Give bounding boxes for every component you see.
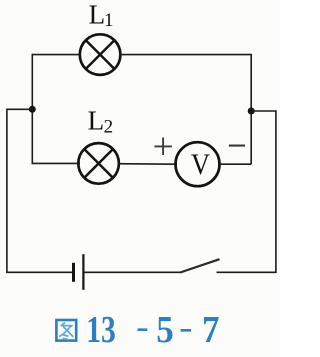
caption: 图 character (drawn) — [56, 320, 76, 341]
svg-text:V: V — [191, 149, 210, 182]
wire: left rail down to battery — [7, 109, 73, 273]
wire: node B to right rail — [251, 110, 276, 112]
svg-text:L: L — [88, 106, 105, 136]
wire: battery to switch — [83, 271, 180, 273]
plus polarity mark — [154, 138, 172, 156]
wire: node A to left rail — [7, 108, 32, 110]
svg-text:7: 7 — [202, 308, 219, 351]
label L1 — [89, 0, 114, 31]
node A junction dot — [29, 106, 36, 113]
wire: node A branch down to lamp L2 — [32, 162, 81, 164]
wire: left vertical joining L1 branch and L2 branch — [31, 54, 33, 164]
wire: lamp L1 to node B (top branch right) — [120, 54, 252, 56]
wire: node A to lamp L1 (top branch left) — [32, 54, 81, 56]
caption dashes — [138, 328, 192, 331]
wire: voltmeter to node B vertical — [218, 163, 251, 165]
node B junction dot — [248, 108, 255, 115]
lamp L1 — [80, 34, 121, 75]
lamp L2 — [78, 143, 119, 184]
svg-text:1: 1 — [104, 10, 114, 31]
wire: right vertical from L1 branch to voltmeter branch — [250, 54, 252, 164]
svg-text:13: 13 — [86, 310, 116, 351]
svg-text:L: L — [89, 0, 106, 30]
switch S (open blade) — [180, 259, 219, 272]
wire: right rail down to switch — [217, 110, 276, 272]
wire: lamp L2 to voltmeter — [118, 163, 177, 166]
voltmeter V — [176, 142, 220, 186]
caption: figure number 13 - 5 - 7 — [86, 308, 219, 351]
svg-text:2: 2 — [104, 116, 114, 137]
minus polarity mark — [229, 145, 245, 147]
battery cell — [74, 254, 84, 290]
svg-text:5: 5 — [156, 308, 173, 351]
label L2 — [88, 106, 114, 138]
